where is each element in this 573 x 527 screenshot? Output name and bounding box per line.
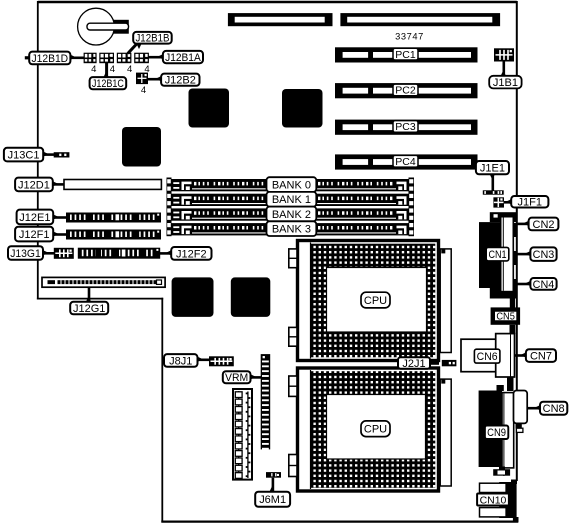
svg-text:CPU: CPU: [364, 295, 387, 307]
svg-text:J12G1: J12G1: [73, 303, 105, 315]
svg-text:J13G1: J13G1: [10, 248, 41, 260]
svg-text:CN7: CN7: [530, 351, 552, 363]
svg-text:BANK 0: BANK 0: [272, 180, 311, 192]
svg-text:CN9: CN9: [487, 427, 506, 439]
svg-text:4: 4: [141, 85, 146, 96]
svg-text:J12B1B: J12B1B: [135, 33, 169, 45]
svg-text:CPU: CPU: [364, 424, 387, 436]
svg-text:CN6: CN6: [477, 351, 498, 363]
svg-text:J1B1: J1B1: [493, 77, 518, 89]
svg-text:J12B1A: J12B1A: [165, 52, 201, 64]
svg-text:J13C1: J13C1: [8, 150, 40, 162]
svg-text:33747: 33747: [395, 32, 424, 42]
svg-text:4: 4: [110, 64, 115, 75]
svg-text:BANK 2: BANK 2: [272, 209, 311, 221]
svg-text:J12F1: J12F1: [19, 229, 50, 241]
svg-text:4: 4: [127, 64, 132, 75]
svg-text:J12B1D: J12B1D: [31, 53, 68, 65]
svg-text:CN3: CN3: [533, 249, 555, 261]
svg-text:J8J1: J8J1: [169, 355, 192, 367]
svg-text:J12F2: J12F2: [176, 248, 207, 260]
svg-text:VRM: VRM: [225, 372, 248, 384]
svg-text:J12B2: J12B2: [165, 75, 196, 87]
svg-text:BANK 3: BANK 3: [272, 224, 311, 236]
svg-text:J1E1: J1E1: [480, 163, 505, 175]
svg-text:PC3: PC3: [395, 121, 416, 133]
svg-text:CN2: CN2: [533, 219, 555, 231]
svg-text:J6M1: J6M1: [259, 494, 286, 506]
svg-text:CN4: CN4: [533, 279, 555, 291]
svg-text:PC2: PC2: [395, 85, 416, 97]
svg-text:CN5: CN5: [496, 311, 515, 323]
svg-text:4: 4: [91, 64, 96, 75]
svg-text:BANK 1: BANK 1: [272, 194, 311, 206]
svg-text:J12D1: J12D1: [18, 179, 50, 191]
svg-text:CN8: CN8: [543, 403, 565, 415]
svg-text:J2J1: J2J1: [402, 358, 425, 370]
svg-text:PC1: PC1: [395, 49, 416, 61]
svg-text:J12E1: J12E1: [19, 212, 50, 224]
svg-text:J12B1C: J12B1C: [92, 78, 124, 90]
svg-text:CN10: CN10: [480, 494, 507, 506]
svg-text:J1F1: J1F1: [518, 197, 543, 209]
svg-text:CN1: CN1: [488, 249, 506, 261]
svg-text:PC4: PC4: [395, 156, 416, 168]
